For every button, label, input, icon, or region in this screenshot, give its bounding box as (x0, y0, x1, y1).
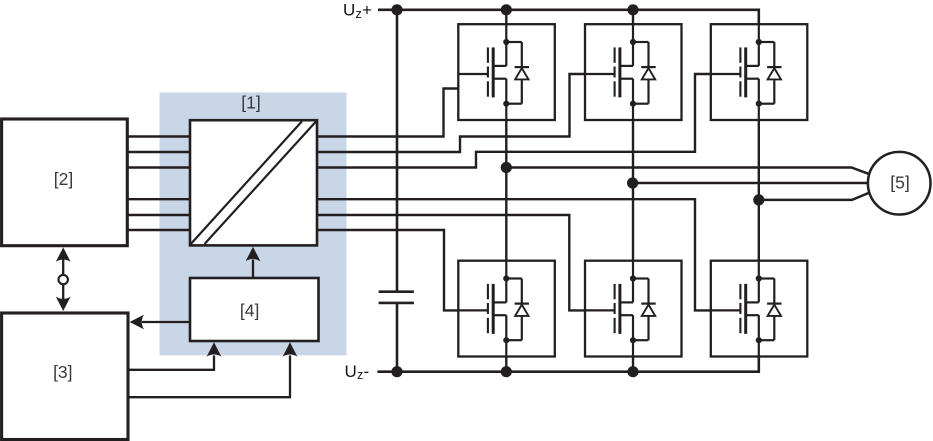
svg-text:[2]: [2] (54, 169, 73, 189)
svg-text:Uz+: Uz+ (343, 1, 372, 21)
svg-text:[4]: [4] (240, 301, 259, 321)
svg-text:[1]: [1] (241, 93, 260, 113)
svg-text:[5]: [5] (890, 173, 909, 193)
svg-text:[3]: [3] (53, 362, 72, 382)
svg-text:Uz-: Uz- (345, 362, 370, 382)
